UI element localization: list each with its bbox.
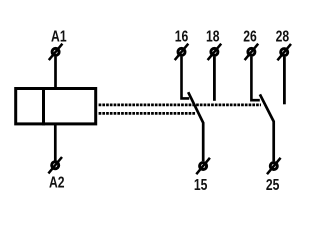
svg-text:A2: A2 — [49, 173, 65, 191]
wire coil to A2 — [54, 124, 57, 161]
terminal 16 — [175, 44, 189, 60]
terminal 26 — [245, 44, 259, 60]
terminal 18 — [208, 44, 222, 60]
svg-text:26: 26 — [243, 27, 257, 45]
terminal A2 — [48, 157, 62, 173]
terminal 28 — [277, 44, 291, 60]
linkage dotted line upper — [99, 104, 261, 107]
linkage dotted line lower — [99, 112, 196, 115]
terminal A1 — [49, 44, 63, 60]
relay coil K1 — [16, 89, 96, 124]
svg-text:15: 15 — [194, 176, 208, 194]
wire A1 to coil — [54, 57, 57, 89]
contact lever 25-26 — [260, 94, 274, 161]
svg-text:A1: A1 — [51, 27, 67, 45]
wire 16 with NC contact foot — [182, 57, 190, 99]
wire 18 NO contact — [213, 57, 216, 101]
svg-text:18: 18 — [206, 27, 220, 45]
svg-text:16: 16 — [175, 27, 189, 45]
coil divider — [42, 87, 45, 125]
terminal 25 — [267, 158, 281, 174]
wire 26 with NC contact foot — [251, 57, 259, 101]
svg-text:28: 28 — [276, 27, 290, 45]
contact lever 15-16 — [188, 92, 203, 161]
svg-text:25: 25 — [266, 175, 280, 193]
terminal 15 — [196, 158, 210, 174]
wire 28 NO contact — [283, 57, 286, 105]
